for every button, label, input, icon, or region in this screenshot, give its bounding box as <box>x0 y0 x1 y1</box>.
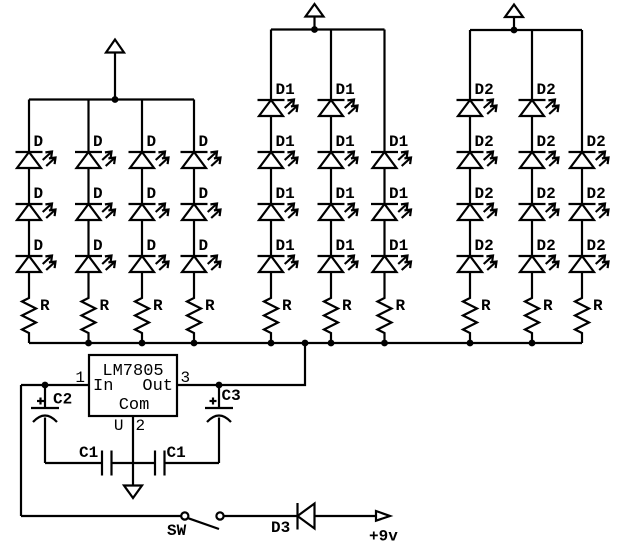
wire group2 feed <box>313 17 315 30</box>
resistor R g2 c1 <box>264 272 278 343</box>
node +9v arrow <box>376 511 390 521</box>
LED D g1 c4 r3 <box>181 256 221 273</box>
wire g1 c1 r1-r2 <box>28 168 30 204</box>
LED D g1 c3 r1 <box>129 152 169 169</box>
svg-text:D1: D1 <box>389 185 408 203</box>
LED D2 g3 c3 r1 <box>569 152 609 169</box>
wire left drop <box>20 385 22 516</box>
LED D g1 c1 r1 <box>16 152 56 169</box>
wire g2 c2 r2-r3 <box>330 168 332 204</box>
LED D g1 c2 r3 <box>75 256 115 273</box>
wire g1 c2 r1-r2 <box>87 168 89 204</box>
svg-text:D: D <box>147 133 157 151</box>
wire g1 c3 r1-r2 <box>141 168 143 204</box>
svg-text:D: D <box>199 185 209 203</box>
svg-text:D1: D1 <box>276 133 295 151</box>
wire g3 c3 r2-r3 <box>581 220 583 256</box>
wire SW to D3 <box>224 515 297 517</box>
junction C2 node dot <box>42 382 49 389</box>
svg-text:R: R <box>342 297 352 315</box>
svg-text:Com: Com <box>119 396 150 415</box>
resistor R g2 c3 <box>378 272 392 343</box>
junction rail feed dot <box>302 340 309 347</box>
ground <box>124 486 142 499</box>
svg-text:D: D <box>199 237 209 255</box>
svg-text:D: D <box>147 237 157 255</box>
diode D3 <box>298 503 315 530</box>
wire LED bottom rail <box>29 342 582 344</box>
wire C1 rail left <box>45 462 102 464</box>
wire pin3 Out <box>177 343 305 385</box>
junction rail dot x142 <box>139 340 146 347</box>
svg-text:D1: D1 <box>336 185 355 203</box>
LED D g1 c2 r1 <box>75 152 115 169</box>
LED D1 g2 c1 r4 <box>258 256 298 273</box>
LED D g1 c3 r2 <box>129 204 169 221</box>
svg-text:D2: D2 <box>475 133 494 151</box>
wire group3 col1 drop <box>469 30 471 100</box>
svg-text:D: D <box>199 133 209 151</box>
LED D2 g3 c3 r3 <box>569 256 609 273</box>
LED D1 g2 c3 r1 <box>371 152 411 169</box>
svg-text:D: D <box>93 237 103 255</box>
svg-text:U: U <box>114 417 124 435</box>
junction rail dot x384.5 <box>381 340 388 347</box>
svg-text:R: R <box>40 297 50 315</box>
svg-text:D2: D2 <box>475 81 494 99</box>
LED D g1 c1 r3 <box>16 256 56 273</box>
LED D g1 c4 r2 <box>181 204 221 221</box>
svg-text:R: R <box>593 297 603 315</box>
capacitor C1 (right) <box>155 451 165 476</box>
resistor R g3 c3 <box>575 272 589 343</box>
svg-text:D2: D2 <box>587 237 606 255</box>
svg-text:D: D <box>34 185 44 203</box>
wire pin1 In <box>21 384 89 386</box>
junction rail dot x331 <box>328 340 335 347</box>
LED D g1 c4 r1 <box>181 152 221 169</box>
resistor R g3 c1 <box>463 272 477 343</box>
svg-text:D1: D1 <box>389 133 408 151</box>
svg-text:D1: D1 <box>336 237 355 255</box>
LED D g1 c3 r3 <box>129 256 169 273</box>
capacitor C3 <box>205 385 233 463</box>
wire g2 c1 r2-r3 <box>270 168 272 204</box>
wire group3 top rail <box>470 29 582 31</box>
wire group3 col2 drop <box>531 30 533 100</box>
LED D2 g3 c1 r3 <box>457 204 497 221</box>
LED D1 g2 c2 r4 <box>318 256 358 273</box>
svg-text:R: R <box>100 297 110 315</box>
svg-text:C1: C1 <box>167 444 186 462</box>
wire group1 feed <box>114 53 116 100</box>
svg-text:R: R <box>153 297 163 315</box>
svg-text:R: R <box>543 297 553 315</box>
wire group1 col1 drop <box>28 100 30 153</box>
wire g3 c2 r1-r2 <box>531 116 533 152</box>
LED D1 g2 c1 r1 <box>258 100 298 117</box>
svg-text:D2: D2 <box>587 133 606 151</box>
wire g2 c3 r1-r2 <box>383 168 385 204</box>
svg-text:C3: C3 <box>222 387 241 405</box>
resistor R g1 c2 <box>82 272 96 343</box>
wire g2 c1 r1-r2 <box>270 116 272 152</box>
svg-text:C2: C2 <box>53 391 72 409</box>
junction rail dot x271 <box>268 340 275 347</box>
svg-text:D1: D1 <box>276 237 295 255</box>
LED D2 g3 c2 r2 <box>519 152 559 169</box>
wire g1 c3 r2-r3 <box>141 220 143 256</box>
LED D2 g3 c1 r4 <box>457 256 497 273</box>
wire pin2 Com <box>132 416 134 485</box>
svg-text:In: In <box>93 377 113 396</box>
svg-text:D2: D2 <box>587 185 606 203</box>
svg-text:D2: D2 <box>537 237 556 255</box>
capacitor C2 <box>31 385 59 463</box>
junction rail dot x532 <box>529 340 536 347</box>
wire group3 feed <box>513 17 515 30</box>
svg-text:D1: D1 <box>276 185 295 203</box>
svg-text:D: D <box>34 133 44 151</box>
power symbol group2 (V+ arrow) <box>306 4 324 17</box>
wire g2 c1 r3-r4 <box>270 220 272 256</box>
LED D1 g2 c2 r3 <box>318 204 358 221</box>
svg-text:D: D <box>147 185 157 203</box>
wire C1 rail middle <box>112 462 156 464</box>
wire group1 col4 drop <box>193 100 195 153</box>
wire g3 c1 r1-r2 <box>469 116 471 152</box>
wire C1 rail right <box>165 462 220 464</box>
LED D1 g2 c2 r1 <box>318 100 358 117</box>
LED D2 g3 c1 r2 <box>457 152 497 169</box>
resistor R g2 c2 <box>324 272 338 343</box>
LED D g1 c2 r2 <box>75 204 115 221</box>
op-amp U1 regulator LM7805 box <box>89 355 177 416</box>
svg-text:D2: D2 <box>475 237 494 255</box>
junction rail dot x88.5 <box>85 340 92 347</box>
svg-text:R: R <box>205 297 215 315</box>
svg-text:D3: D3 <box>271 519 290 537</box>
wire g1 c2 r2-r3 <box>87 220 89 256</box>
wire group3 col3 drop <box>581 30 583 152</box>
LED D2 g3 c3 r2 <box>569 204 609 221</box>
svg-text:D1: D1 <box>389 237 408 255</box>
LED D1 g2 c1 r2 <box>258 152 298 169</box>
LED D2 g3 c2 r3 <box>519 204 559 221</box>
LED D g1 c1 r2 <box>16 204 56 221</box>
junction group3 feed dot <box>511 27 518 34</box>
LED D2 g3 c2 r4 <box>519 256 559 273</box>
svg-text:D1: D1 <box>336 81 355 99</box>
wire group1 col2 drop <box>87 100 89 153</box>
junction rail dot x470 <box>467 340 474 347</box>
capacitor C1 (left) <box>102 451 112 476</box>
power symbol group1 (V+ arrow) <box>106 40 124 53</box>
wire group1 top rail <box>29 98 194 100</box>
junction rail dot x194 <box>191 340 198 347</box>
LED D1 g2 c3 r3 <box>371 256 411 273</box>
junction group1 feed dot <box>112 96 119 103</box>
svg-text:R: R <box>282 297 292 315</box>
wire g1 c1 r2-r3 <box>28 220 30 256</box>
wire g2 c2 r3-r4 <box>330 220 332 256</box>
junction group2 feed dot <box>311 26 318 33</box>
svg-text:D2: D2 <box>475 185 494 203</box>
wire group2 col2 drop <box>330 30 332 101</box>
svg-text:D2: D2 <box>537 81 556 99</box>
resistor R g1 c4 <box>187 272 201 343</box>
svg-text:Out: Out <box>142 377 173 396</box>
wire g3 c3 r1-r2 <box>581 168 583 204</box>
LED D1 g2 c3 r2 <box>371 204 411 221</box>
wire g3 c2 r3-r4 <box>531 220 533 256</box>
wire g1 c4 r2-r3 <box>193 220 195 256</box>
switch SW <box>181 512 223 529</box>
svg-text:D: D <box>93 185 103 203</box>
wire g3 c2 r2-r3 <box>531 168 533 204</box>
svg-text:D2: D2 <box>537 133 556 151</box>
wire group2 col1 drop <box>270 30 272 101</box>
wire g3 c1 r3-r4 <box>469 220 471 256</box>
wire bottom rail left <box>21 515 181 517</box>
svg-text:+9v: +9v <box>369 528 398 546</box>
resistor R g1 c3 <box>135 272 149 343</box>
svg-text:D2: D2 <box>537 185 556 203</box>
resistor R g1 c1 <box>22 272 36 343</box>
wire group2 col3 drop <box>383 30 385 153</box>
wire g1 c4 r1-r2 <box>193 168 195 204</box>
svg-text:D1: D1 <box>276 81 295 99</box>
svg-text:SW: SW <box>167 522 187 540</box>
LED D2 g3 c1 r1 <box>457 100 497 117</box>
wire group1 col3 drop <box>141 100 143 153</box>
wire g2 c3 r2-r3 <box>383 220 385 256</box>
power symbol group3 (V+ arrow) <box>505 5 523 18</box>
svg-text:D1: D1 <box>336 133 355 151</box>
wire D3 to +9v <box>315 515 377 517</box>
LED D1 g2 c2 r2 <box>318 152 358 169</box>
svg-text:D: D <box>34 237 44 255</box>
svg-text:C1: C1 <box>79 444 98 462</box>
svg-text:D: D <box>93 133 103 151</box>
wire g3 c1 r2-r3 <box>469 168 471 204</box>
wire group2 top rail <box>271 28 385 30</box>
LED D1 g2 c1 r3 <box>258 204 298 221</box>
LED D2 g3 c2 r1 <box>519 100 559 117</box>
resistor R g3 c2 <box>525 272 539 343</box>
svg-text:2: 2 <box>136 417 146 435</box>
wire g2 c2 r1-r2 <box>330 116 332 152</box>
svg-text:R: R <box>396 297 406 315</box>
svg-text:R: R <box>481 297 491 315</box>
junction C3 node dot <box>216 382 223 389</box>
